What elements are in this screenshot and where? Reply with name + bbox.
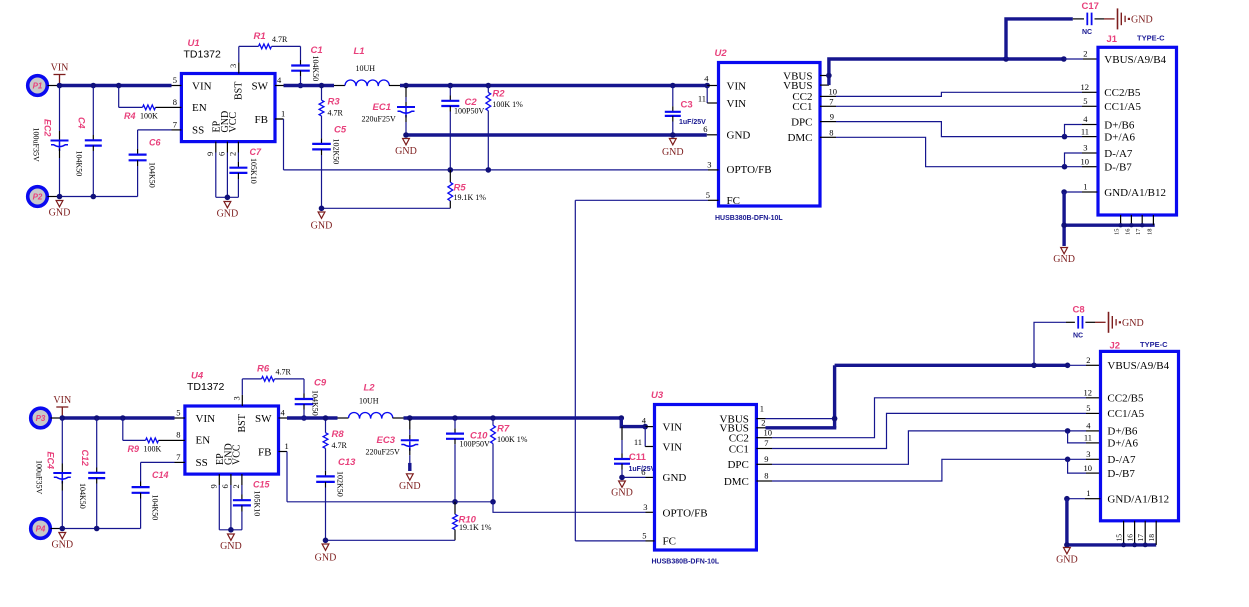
node C11-GND junction: [619, 475, 625, 481]
svg-text:HUSB380B-DFN-10L: HUSB380B-DFN-10L: [652, 559, 720, 566]
svg-text:GND: GND: [220, 541, 242, 552]
svg-text:105K10: 105K10: [253, 491, 262, 517]
svg-text:D+/B6: D+/B6: [1107, 426, 1138, 438]
capacitor C6: [138, 129, 172, 131]
ground (under P4): [59, 533, 66, 539]
wire P2 to GND rail: [48, 196, 60, 198]
pin 6 U1 GND: [226, 142, 228, 153]
wire CC2 U2 to J1 pin12: [820, 95, 836, 97]
svg-text:8: 8: [764, 470, 768, 480]
node VIN-C12 junction: [94, 415, 100, 421]
capacitor C9: [295, 398, 314, 400]
resistor R7: [492, 418, 494, 425]
wire D- bracket to pin3: [1065, 153, 1083, 167]
svg-text:GND: GND: [662, 147, 684, 158]
svg-text:C12: C12: [80, 450, 90, 467]
wire VBUS vertical (thick): [829, 59, 1006, 85]
wire P1 to VIN rail: [48, 85, 60, 87]
pin 7 U1 SS: [172, 129, 182, 131]
capacitor EC2: [59, 86, 61, 132]
svg-text:10UH: 10UH: [359, 397, 379, 406]
op-amp U4 TD1372 regulator: [185, 406, 279, 474]
svg-text:U2: U2: [715, 48, 728, 59]
svg-text:P3: P3: [36, 414, 46, 423]
ground (under U1): [224, 202, 231, 208]
pin 6 U4 GND: [230, 474, 232, 485]
svg-text:GND: GND: [395, 146, 417, 157]
node U3 VIN junction: [642, 424, 648, 430]
svg-text:VIN: VIN: [53, 395, 71, 406]
svg-text:104K50: 104K50: [311, 390, 320, 416]
svg-text:104K50: 104K50: [311, 56, 320, 82]
svg-text:U3: U3: [651, 390, 664, 401]
node VBUS-J1 junction: [1061, 56, 1067, 62]
svg-text:6: 6: [220, 484, 230, 488]
resistor R5: [449, 170, 451, 182]
svg-text:FC: FC: [727, 195, 740, 207]
svg-text:C5: C5: [334, 125, 347, 136]
svg-text:GND: GND: [727, 129, 751, 141]
pin 3 U2 OPTO/FB: [708, 169, 719, 171]
resistor R2: [487, 86, 489, 93]
svg-text:104K50: 104K50: [148, 162, 157, 188]
svg-text:TYPE-C: TYPE-C: [1140, 340, 1168, 349]
port P4: [31, 519, 51, 539]
wire DPC U3 to J2 D+ pins: [756, 463, 772, 465]
pin 7 U4 SS: [175, 461, 185, 463]
svg-text:GND: GND: [217, 209, 239, 220]
node P4-EC4 junction: [60, 526, 66, 532]
svg-text:C6: C6: [149, 138, 161, 148]
ground (under J2): [1064, 548, 1071, 554]
svg-text:P1: P1: [33, 81, 43, 90]
svg-text:VIN: VIN: [51, 63, 69, 74]
node VBUS-J2 junction: [1065, 363, 1071, 369]
pin 2 U1 VCC: [237, 142, 239, 153]
svg-text:C4: C4: [77, 117, 87, 129]
svg-text:102K50: 102K50: [336, 471, 345, 497]
svg-text:2: 2: [228, 152, 238, 156]
svg-text:1: 1: [1083, 182, 1087, 192]
svg-text:SS: SS: [196, 457, 208, 469]
node R2 junction: [486, 83, 492, 89]
svg-text:5: 5: [642, 531, 646, 541]
wire J2 GND (thick): [1065, 499, 1068, 546]
svg-text:6: 6: [703, 124, 707, 134]
pin 17 J2 shell: [1144, 521, 1146, 545]
svg-text:9: 9: [764, 454, 768, 464]
svg-text:10: 10: [764, 428, 773, 438]
svg-text:6: 6: [641, 467, 645, 477]
svg-text:TYPE-C: TYPE-C: [1137, 34, 1165, 43]
svg-text:C8: C8: [1073, 304, 1085, 315]
svg-text:P2: P2: [33, 192, 43, 201]
svg-text:9: 9: [830, 112, 834, 122]
svg-text:CC1/A5: CC1/A5: [1104, 101, 1141, 113]
svg-text:GND/A1/B12: GND/A1/B12: [1107, 494, 1169, 506]
wire U3 VIN pin11 branch: [644, 427, 646, 447]
svg-text:3: 3: [228, 64, 238, 68]
capacitor C3: [672, 86, 674, 107]
svg-text:1: 1: [760, 404, 764, 414]
node C13-R10-GND junction: [323, 538, 329, 544]
node P2-EC2 junction: [57, 194, 63, 200]
node R7 junction: [490, 415, 496, 421]
pin 1 J1 GND: [1082, 191, 1097, 193]
node J2 GND rail junction: [1064, 542, 1070, 548]
ground (under C11): [619, 481, 626, 487]
wire CC1 U2 to J1 pin5: [820, 105, 836, 107]
svg-text:SS: SS: [192, 125, 204, 137]
svg-text:VBUS/A9/B4: VBUS/A9/B4: [1107, 360, 1169, 372]
pin 3 U1 BST: [238, 62, 240, 73]
svg-text:GND: GND: [611, 488, 633, 499]
svg-text:R9: R9: [128, 444, 140, 454]
ground (under C13): [322, 544, 329, 550]
svg-text:4.7R: 4.7R: [328, 109, 344, 118]
pin 18 J2 shell: [1155, 521, 1157, 545]
svg-text:10: 10: [1084, 463, 1093, 473]
svg-text:VBUS/A9/B4: VBUS/A9/B4: [1104, 54, 1166, 66]
svg-text:D+/B6: D+/B6: [1104, 119, 1135, 131]
wire D+ bracket to pin4: [1065, 125, 1083, 137]
svg-text:16: 16: [1124, 228, 1131, 235]
svg-text:15: 15: [1114, 229, 1121, 236]
pin 18 J1 shell: [1152, 215, 1154, 225]
resistor R4: [118, 86, 120, 108]
wire DMC U3 to J2 D- pins: [756, 480, 772, 482]
svg-text:D+/A6: D+/A6: [1104, 131, 1135, 143]
svg-text:6: 6: [217, 152, 227, 156]
svg-text:EC3: EC3: [377, 435, 396, 446]
pin 15 J1 shell: [1120, 215, 1122, 225]
wire P4 to GND rail: [51, 528, 63, 530]
node J2 GND junction: [1064, 496, 1070, 502]
svg-text:L1: L1: [354, 46, 365, 57]
wire DMC U2 to J1 D- pins: [820, 136, 836, 138]
wire VIN rail (bottom thick): [62, 416, 174, 419]
capacitor C14: [141, 461, 175, 463]
wire D+ bracket to pin11 J2: [1068, 431, 1086, 443]
wire C8 branch: [1034, 322, 1066, 365]
node L1-EC1 junction: [403, 83, 409, 89]
node U4 GND junction: [228, 527, 234, 533]
node D+ junction bottom: [1065, 428, 1071, 434]
inductor L2: [338, 417, 349, 419]
wire C8 to GND: [1095, 321, 1106, 323]
svg-text:11: 11: [1081, 126, 1089, 136]
svg-text:4.7R: 4.7R: [276, 368, 292, 377]
svg-text:5: 5: [176, 408, 180, 418]
svg-text:19.1K 1%: 19.1K 1%: [459, 523, 492, 532]
node C10 junction: [452, 415, 458, 421]
wire VBUS rail (top thick): [400, 84, 707, 87]
op-amp U1 TD1372 regulator: [181, 74, 275, 142]
node VIN-C4 junction: [91, 83, 97, 89]
pin 5 U3 FC: [646, 540, 655, 542]
svg-text:BST: BST: [237, 414, 248, 432]
svg-text:105K10: 105K10: [249, 158, 258, 184]
node C5-R5-GND junction: [319, 206, 325, 212]
node R8 junction: [323, 415, 329, 421]
wire C17 branch (thick): [1006, 19, 1073, 59]
svg-text:R4: R4: [124, 111, 136, 121]
svg-text:5: 5: [173, 75, 177, 85]
svg-text:220uF25V: 220uF25V: [366, 447, 400, 456]
svg-text:OPTO/FB: OPTO/FB: [663, 507, 708, 519]
wire U1 bottom pins to GND: [215, 153, 217, 198]
svg-text:R6: R6: [257, 364, 270, 375]
svg-text:7: 7: [829, 97, 833, 107]
svg-text:TD1372: TD1372: [187, 381, 225, 393]
port P3: [31, 408, 51, 428]
svg-text:3: 3: [1083, 143, 1087, 153]
svg-text:D-/A7: D-/A7: [1107, 454, 1136, 466]
node J1 GND rail junction: [1061, 222, 1067, 228]
pin 5 U4 VIN: [175, 417, 185, 419]
capacitor C4: [92, 86, 94, 136]
svg-text:FB: FB: [258, 446, 271, 458]
node VBUS pin junction bottom: [832, 416, 838, 422]
svg-text:100uF35V: 100uF35V: [32, 128, 41, 162]
pin 5 U1 VIN: [172, 85, 182, 87]
svg-text:2: 2: [1083, 49, 1087, 59]
svg-text:GND: GND: [399, 481, 421, 492]
svg-text:4.7R: 4.7R: [272, 35, 288, 44]
capacitor C12: [96, 418, 98, 468]
svg-text:17: 17: [1136, 534, 1145, 542]
svg-text:L2: L2: [364, 383, 376, 394]
svg-text:C1: C1: [311, 45, 323, 56]
node C2 junction: [448, 83, 454, 89]
svg-text:C11: C11: [629, 452, 647, 463]
wire VBUS pin1 to vertical: [766, 418, 835, 420]
svg-text:10: 10: [1081, 156, 1090, 166]
node EC1-GND junction: [403, 132, 409, 138]
svg-text:104K50: 104K50: [75, 151, 84, 177]
wire FB net (top): [275, 118, 284, 120]
svg-text:2: 2: [231, 484, 241, 488]
wire R1 to C1: [272, 45, 301, 47]
svg-text:GND: GND: [315, 553, 337, 564]
capacitor EC3: [409, 420, 411, 430]
pin 17 J1 shell: [1141, 215, 1143, 225]
node VIN-R9 junction: [120, 415, 126, 421]
svg-text:U1: U1: [188, 38, 200, 49]
svg-text:FC: FC: [663, 536, 676, 548]
node VBUS pin junction: [826, 73, 832, 79]
svg-text:12: 12: [1081, 82, 1090, 92]
svg-text:D+/A6: D+/A6: [1107, 438, 1138, 450]
svg-text:VIN: VIN: [663, 421, 683, 433]
svg-text:GND: GND: [1122, 318, 1144, 329]
svg-text:16: 16: [1125, 534, 1134, 542]
port P1: [28, 76, 48, 96]
svg-text:VIN: VIN: [663, 441, 683, 453]
resistor R6: [262, 377, 275, 382]
pin 16 J1 shell: [1130, 215, 1132, 225]
wire D- bracket to pin10 J2: [1068, 459, 1086, 473]
wire U4 bottom pins to GND: [218, 485, 220, 530]
svg-text:GND: GND: [51, 540, 73, 551]
svg-text:8: 8: [173, 97, 177, 107]
ground (under P2): [56, 201, 63, 207]
wire BST net (bottom): [241, 379, 243, 395]
wire R6 to C9: [275, 378, 305, 380]
capacitor C7: [237, 153, 239, 163]
pin VBUS U2 right: [820, 75, 829, 77]
svg-text:R3: R3: [328, 97, 341, 108]
capacitor EC4: [61, 418, 63, 464]
svg-text:SW: SW: [255, 413, 272, 425]
svg-text:VIN: VIN: [727, 98, 747, 110]
svg-text:5: 5: [1083, 96, 1087, 106]
svg-text:D-/B7: D-/B7: [1107, 468, 1135, 480]
wire GND rail (bottom left): [62, 528, 140, 530]
wire VBUS vertical bottom (thick): [833, 365, 836, 428]
svg-text:GND: GND: [663, 472, 687, 484]
node R2-FB junction: [486, 167, 492, 173]
svg-text:7: 7: [173, 119, 177, 129]
capacitor C17 (NC): [1073, 18, 1084, 20]
svg-text:DMC: DMC: [724, 476, 749, 488]
svg-text:U4: U4: [191, 371, 204, 382]
svg-text:EC1: EC1: [373, 102, 391, 113]
svg-text:1uF/25V: 1uF/25V: [679, 119, 706, 126]
svg-text:100K: 100K: [144, 445, 162, 454]
svg-text:100P50V: 100P50V: [460, 440, 490, 449]
op-amp U2 HUSB380B controller: [719, 63, 821, 207]
pin 1 U1 FB: [275, 118, 284, 120]
svg-text:10UH: 10UH: [356, 64, 376, 73]
svg-text:7: 7: [176, 452, 180, 462]
svg-text:C7: C7: [250, 147, 262, 157]
svg-text:100P50V: 100P50V: [454, 106, 484, 115]
svg-text:EC4: EC4: [46, 452, 56, 470]
svg-text:EN: EN: [192, 102, 207, 114]
pin 1 J2 GND: [1085, 498, 1101, 500]
svg-text:9: 9: [209, 484, 219, 488]
svg-text:SW: SW: [252, 80, 269, 92]
svg-text:8: 8: [829, 127, 833, 137]
node D- junction bottom: [1065, 457, 1071, 463]
node R3 junction: [319, 83, 325, 89]
svg-text:19.1K 1%: 19.1K 1%: [454, 193, 487, 202]
svg-text:C15: C15: [253, 480, 271, 490]
node D+ junction: [1062, 134, 1068, 140]
svg-text:GND: GND: [311, 221, 333, 232]
pin 4 U4 SW: [279, 417, 288, 419]
wire BST net: [238, 46, 240, 62]
svg-text:220uF25V: 220uF25V: [362, 115, 396, 124]
svg-text:J1: J1: [1107, 34, 1118, 45]
wire VBUS to J1 pin2 (thick): [1006, 57, 1064, 60]
ground (under EC3): [406, 474, 413, 480]
svg-text:104K50: 104K50: [78, 483, 87, 509]
svg-text:BST: BST: [234, 82, 245, 100]
node C10-FB junction: [452, 499, 458, 505]
inductor L1: [334, 85, 345, 87]
svg-text:100K 1%: 100K 1%: [497, 435, 528, 444]
node VIN-EC2 junction: [57, 83, 63, 89]
svg-text:104K50: 104K50: [151, 495, 160, 521]
svg-text:CC1: CC1: [792, 101, 812, 113]
pin 8 U1 EN: [172, 106, 182, 108]
capacitor C11: [621, 427, 623, 440]
resistor R9: [122, 418, 124, 440]
node C9-SW junction: [301, 415, 307, 421]
svg-text:R2: R2: [492, 89, 505, 100]
svg-text:3: 3: [643, 502, 647, 512]
wire VBUS jog to U3 (thick): [621, 418, 645, 427]
node C3 junction top: [670, 83, 676, 89]
pin 8 U4 EN: [175, 439, 185, 441]
pin 5 U2 FC: [708, 199, 719, 201]
svg-text:CC1: CC1: [729, 443, 749, 455]
wire C11 GND to U3 pin6: [622, 476, 646, 478]
svg-text:GND: GND: [1056, 555, 1078, 566]
ground (earth bars near C17): [1117, 8, 1119, 29]
svg-text:C9: C9: [314, 378, 327, 389]
svg-text:100K 1%: 100K 1%: [492, 100, 523, 109]
wire GND rail (top left): [60, 196, 138, 198]
wire CC2 U3 to J2 pin12: [756, 437, 772, 439]
svg-text:10: 10: [829, 87, 838, 97]
svg-text:18: 18: [1147, 534, 1156, 542]
svg-text:CC2/B5: CC2/B5: [1107, 393, 1144, 405]
svg-text:VIN: VIN: [192, 80, 212, 92]
resistor R3: [321, 86, 323, 101]
ground (under U4): [228, 534, 235, 540]
node L2-EC3 junction: [407, 415, 413, 421]
capacitor C15: [241, 485, 243, 495]
node VIN-R4 junction: [116, 83, 122, 89]
pin 4 U1 SW: [275, 85, 284, 87]
svg-text:1: 1: [281, 108, 285, 118]
port P2: [28, 187, 48, 207]
svg-text:3: 3: [1086, 449, 1090, 459]
svg-text:5: 5: [706, 190, 710, 200]
svg-text:17: 17: [1135, 228, 1142, 235]
pin 3 U4 BST: [241, 395, 243, 406]
ground (under C3): [669, 139, 676, 145]
node U1 GND junction: [225, 195, 231, 201]
ground (earth bars near C8): [1108, 312, 1110, 333]
svg-text:VIN: VIN: [196, 413, 216, 425]
svg-text:NC: NC: [1082, 29, 1092, 36]
svg-text:DPC: DPC: [791, 116, 812, 128]
wire R5 to GND: [322, 207, 451, 209]
wire SW rail (thick): [284, 84, 335, 87]
node D- junction: [1062, 164, 1068, 170]
svg-text:TD1372: TD1372: [184, 49, 222, 61]
svg-text:EC2: EC2: [43, 119, 53, 137]
svg-text:4.7R: 4.7R: [332, 441, 348, 450]
svg-text:11: 11: [634, 437, 642, 447]
svg-text:D-/B7: D-/B7: [1104, 162, 1132, 174]
svg-text:DPC: DPC: [727, 459, 748, 471]
svg-text:CC1/A5: CC1/A5: [1107, 408, 1144, 420]
capacitor C2: [449, 86, 451, 96]
pin 2 U4 VCC: [241, 474, 243, 485]
svg-text:15: 15: [1114, 534, 1123, 542]
svg-text:CC2/B5: CC2/B5: [1104, 87, 1141, 99]
svg-text:1: 1: [285, 441, 289, 451]
wire R10 to GND: [326, 539, 456, 541]
node VBUS C17 branch junction: [1003, 56, 1009, 62]
resistor R1: [259, 44, 272, 49]
svg-text:GND/A1/B12: GND/A1/B12: [1104, 187, 1166, 199]
